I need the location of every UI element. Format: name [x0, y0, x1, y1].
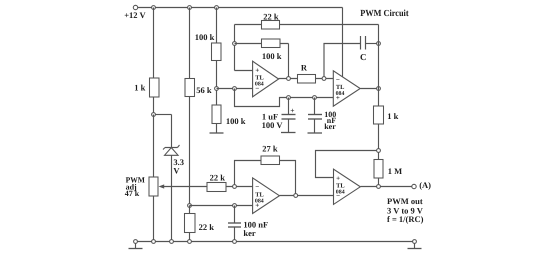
- wire hysteresis loop to U1D plus: [316, 151, 377, 178]
- node divider / op-amp U1A minus input: [215, 87, 219, 91]
- node top rail / R1 1k column: [152, 6, 156, 10]
- resistor R6 100k feedback: [262, 39, 281, 48]
- svg-text:100 k: 100 k: [195, 32, 215, 42]
- resistor R11 27k: [261, 156, 280, 165]
- svg-text:47 k: 47 k: [125, 189, 140, 198]
- potentiometer P1 wiper arrow: [159, 184, 208, 188]
- node U1C plus / 100nF ker: [233, 204, 237, 208]
- node 1k / zener / pot: [152, 113, 156, 117]
- node U1B output: [377, 87, 381, 91]
- wire 1k to 1M: [378, 124, 380, 160]
- capacitor C3 100nF plates: [308, 98, 322, 120]
- resistor R7 R: [298, 75, 316, 84]
- resistor R12 22k from wiper: [207, 183, 226, 192]
- wire R3 100k top from rail: [216, 8, 218, 44]
- wire zener top: [171, 115, 173, 148]
- label 100 nF ker: [243, 219, 268, 237]
- potentiometer P1 47k body: [149, 177, 158, 196]
- wire 100k feedback drop to U1A output: [288, 44, 290, 79]
- svg-text:+: +: [290, 106, 294, 115]
- svg-text:TL: TL: [336, 182, 345, 189]
- wire 27k feedback row: [235, 161, 262, 185]
- node U1A output / 100k feedback: [287, 77, 291, 81]
- node ground / 22k column: [188, 240, 192, 244]
- ground symbol left: [129, 244, 143, 249]
- wire pot bottom to ground rail: [153, 196, 155, 242]
- label PWM out 3V to 9V f=1/(RC): [387, 196, 424, 224]
- svg-text:+: +: [336, 94, 340, 102]
- svg-text:C: C: [360, 52, 367, 62]
- wire 22k feedback row: [235, 24, 379, 26]
- wire U1B output: [361, 88, 379, 90]
- node R to integrator / C tap: [322, 77, 326, 81]
- wire R1 bottom to node: [153, 97, 155, 115]
- wire bias jog below U1A: [235, 89, 334, 107]
- wire divider mid column: [216, 61, 218, 106]
- svg-text:TL: TL: [255, 75, 264, 82]
- node ground rail left end: [134, 240, 138, 244]
- svg-text:f = 1/(RC): f = 1/(RC): [387, 214, 424, 224]
- ground under R4: [210, 124, 224, 134]
- node U1C output / 27k: [294, 194, 298, 198]
- svg-text:−: −: [255, 85, 259, 93]
- node 56k/22k divider to op-amp U1C +: [188, 204, 192, 208]
- resistor R9 1M: [374, 160, 383, 179]
- label 100 nF ker: [324, 110, 336, 131]
- wire R1 top from rail: [153, 8, 155, 79]
- node U1A minus / bias branch: [233, 87, 237, 91]
- svg-text:V: V: [173, 165, 180, 175]
- node ground / zener column: [170, 240, 174, 244]
- svg-text:+: +: [255, 201, 259, 209]
- wire R2 56k top from rail: [189, 8, 191, 79]
- capacitor C2 1uF 100V plates: [282, 98, 296, 120]
- resistor R10 22k to ground: [185, 214, 196, 233]
- node U1D output / 1M: [377, 185, 381, 189]
- svg-text:−: −: [336, 76, 340, 84]
- resistor R4 100k lower divider: [212, 105, 221, 124]
- svg-text:−: −: [255, 183, 259, 191]
- wire node to zener column: [156, 114, 172, 116]
- node 100k feedback tap: [233, 42, 237, 46]
- terminal +12 V supply: [133, 5, 137, 9]
- svg-text:TL: TL: [255, 191, 264, 198]
- wire C left drop: [324, 44, 361, 77]
- node ground rail right end: [413, 240, 417, 244]
- resistor R5 22k feedback: [262, 21, 280, 30]
- wire feedback node vertical: [234, 25, 236, 71]
- wire +12V top rail: [138, 7, 343, 9]
- wire op-amp U1A minus input: [217, 88, 253, 90]
- op-amp U1D: [334, 169, 361, 204]
- wire op-amp U1A plus input: [235, 70, 253, 72]
- wire ground rail: [136, 241, 415, 243]
- svg-text:56 k: 56 k: [196, 85, 212, 95]
- terminal (A) PWM output: [412, 184, 416, 188]
- op-amp U1B: [333, 71, 360, 106]
- node 22k / 27k feedback / U1C minus: [233, 185, 237, 189]
- zener diode D1 triangle: [165, 148, 179, 156]
- wire zener to ground rail: [171, 156, 173, 242]
- node ground / pot column: [152, 240, 156, 244]
- node C / 22k feedback corner: [377, 42, 381, 46]
- svg-text:−: −: [336, 192, 340, 200]
- svg-text:22 k: 22 k: [210, 173, 226, 183]
- svg-text:22 k: 22 k: [263, 12, 279, 22]
- svg-text:1 k: 1 k: [387, 111, 398, 121]
- wire 56k column down: [189, 97, 191, 206]
- svg-text:R: R: [301, 63, 308, 73]
- svg-text:1 M: 1 M: [388, 166, 402, 176]
- wire 1M bottom to output node: [378, 178, 380, 187]
- svg-text:27 k: 27 k: [262, 144, 278, 154]
- resistor R8 1k output: [374, 106, 384, 124]
- capacitor C1 C plates: [361, 36, 379, 50]
- resistor R3 100k upper divider: [212, 43, 222, 61]
- svg-text:100 k: 100 k: [226, 116, 246, 126]
- wire 22k gnd resistor bottom: [189, 233, 191, 242]
- wire U1B output column: [378, 25, 380, 107]
- label PWM adj 47 k: [125, 175, 146, 198]
- svg-text:ker: ker: [324, 122, 336, 131]
- svg-text:1 k: 1 k: [134, 82, 145, 92]
- ground symbol right: [408, 244, 422, 249]
- svg-text:+: +: [336, 174, 340, 182]
- node 1k/1M divider to U1D +: [377, 149, 381, 153]
- node top rail / R2 56k column: [188, 6, 192, 10]
- wire pot top: [153, 115, 155, 178]
- zener diode D1 3.3V cathode bar: [163, 145, 180, 150]
- svg-text:PWM Circuit: PWM Circuit: [360, 9, 409, 19]
- svg-text:+: +: [255, 66, 259, 74]
- wire 100k feedback row: [235, 43, 289, 45]
- wire U1C plus input row: [190, 205, 253, 207]
- op-amp U1C: [253, 178, 280, 214]
- svg-text:+12 V: +12 V: [124, 10, 146, 20]
- wire U1C output to U1D minus: [280, 195, 334, 197]
- ground under C3: [308, 119, 323, 133]
- resistor R1 1k: [150, 78, 160, 97]
- node bias / C3 100nF: [313, 96, 317, 100]
- capacitor C4 100nF ker plates: [228, 206, 241, 242]
- resistor R2 56k: [185, 79, 195, 97]
- wire 22k gnd resistor top: [189, 206, 191, 214]
- wire pot wiper row to U1C minus: [207, 186, 253, 188]
- svg-text:ker: ker: [243, 228, 256, 238]
- node ground / 100nF ker column: [233, 240, 237, 244]
- wire 27k right drop to U1C output: [280, 161, 296, 196]
- wire U1D output row: [361, 186, 413, 188]
- label 1 uF 100 V: [262, 111, 284, 130]
- svg-text:22 k: 22 k: [199, 222, 215, 232]
- op-amp U1A: [253, 61, 279, 97]
- svg-text:(A): (A): [419, 180, 431, 190]
- label 3.3 V: [173, 157, 184, 176]
- wire +12V power drop to U1B: [342, 8, 344, 78]
- wire U1A output row to U1B minus: [279, 78, 334, 80]
- svg-text:100 V: 100 V: [262, 120, 284, 130]
- node top rail / R3 100k column: [215, 6, 219, 10]
- svg-text:TL: TL: [336, 84, 345, 91]
- node bias / C2 1uF: [287, 96, 291, 100]
- svg-text:100 k: 100 k: [262, 51, 282, 61]
- ground under C2: [281, 119, 296, 133]
